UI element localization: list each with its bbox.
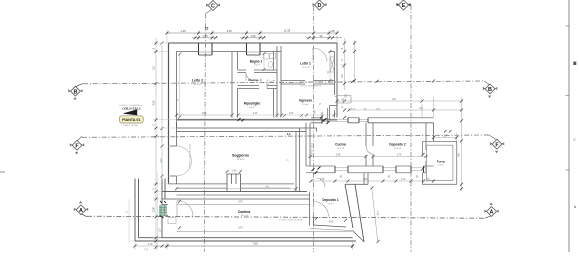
svg-text:B: B [488, 87, 492, 93]
title block: level flag triangle [124, 109, 138, 115]
bottom overall dimension line [167, 242, 353, 250]
svg-text:5,6 m²: 5,6 m² [254, 64, 260, 67]
Letto2 interior vertical dim [179, 54, 181, 117]
svg-text:4,6: 4,6 [458, 153, 461, 157]
north wing outer top wall [169, 42, 338, 44]
svg-text:3,45: 3,45 [226, 29, 232, 33]
svg-text:6,4 m²: 6,4 m² [303, 103, 309, 106]
right chain beside north wing [345, 38, 355, 90]
svg-text:SOPRA: LINEA GRONDA: SOPRA: LINEA GRONDA [279, 219, 303, 222]
title block: PIANTA 01 yellow label [120, 116, 144, 123]
svg-text:SOTTO: MARCIAPIEDE: SOTTO: MARCIAPIEDE [300, 85, 322, 88]
marker B right [483, 84, 497, 98]
svg-text:4,97: 4,97 [238, 200, 243, 203]
svg-text:38,7 m²: 38,7 m² [241, 214, 249, 217]
svg-text:4,80: 4,80 [202, 112, 207, 115]
east wing bottom wall [306, 166, 434, 173]
svg-text:1,45: 1,45 [232, 170, 237, 173]
svg-text:4,5: 4,5 [419, 107, 423, 110]
right vertical chain at forno [460, 119, 463, 190]
svg-text:A: A [490, 210, 494, 216]
marker B left [68, 86, 82, 100]
Forno door jamb marks [422, 153, 425, 170]
svg-text:4,85: 4,85 [329, 220, 334, 223]
svg-text:14,2 m²: 14,2 m² [337, 147, 344, 150]
building south wall [135, 238, 356, 241]
svg-text:4,10: 4,10 [160, 157, 163, 162]
svg-text:1,06: 1,06 [289, 113, 294, 115]
svg-text:E: E [402, 3, 406, 9]
west wall inner face [176, 52, 178, 184]
top dimension line [167, 30, 337, 43]
window bay Letto2 (top wall) [199, 43, 213, 55]
entry steps east of Ingresso [337, 96, 351, 104]
marker D [313, 0, 327, 10]
svg-text:6,0 m²: 6,0 m² [249, 106, 255, 109]
label Disimp 1 [248, 78, 270, 82]
marker F right [490, 139, 504, 153]
left dim extension x129 [128, 199, 130, 243]
Forno inner box [426, 145, 453, 180]
grid line D (vertical dash-dot) [313, 6, 315, 252]
Bagno1 south wall / corridor north wall [238, 70, 278, 73]
svg-text:SOPRA: LINEA: SOPRA: LINEA [311, 142, 314, 157]
label Letto 2 [192, 79, 203, 87]
marker F left [70, 140, 84, 154]
svg-text:1,50: 1,50 [205, 80, 207, 85]
svg-text:1,12: 1,12 [401, 179, 406, 181]
ticks at x=162 french door [161, 42, 164, 178]
marker C [206, 1, 220, 11]
Soggiorno south wall [162, 184, 307, 192]
label Soggiorno [232, 154, 249, 162]
svg-text:Cucina: Cucina [335, 143, 346, 147]
svg-text:16,1 m²: 16,1 m² [194, 83, 202, 86]
svg-text:A: A [79, 208, 83, 214]
Cantina inner south line [177, 231, 353, 233]
svg-text:3,98: 3,98 [336, 154, 341, 157]
left horizontal extension lines [131, 43, 177, 246]
wall between Letto1 and Ingresso [281, 81, 335, 85]
Deposito2 east wall [426, 123, 434, 173]
svg-text:Disimp. 1: Disimp. 1 [248, 78, 262, 82]
svg-text:SOPRA: LINEA GRONDA: SOPRA: LINEA GRONDA [189, 143, 192, 168]
cantina entry door arc [177, 201, 193, 217]
fireplace niche [227, 174, 241, 192]
vestibule opening walls [162, 205, 168, 216]
svg-text:22: 22 [205, 26, 209, 30]
left chain ticks [155, 42, 158, 249]
svg-text:4,1 m²: 4,1 m² [438, 164, 444, 167]
Deposito1 upper door arc [316, 178, 325, 187]
east wing lower dimension chain [311, 180, 434, 182]
svg-text:1,05: 1,05 [250, 34, 256, 38]
courtyard enclosure wall [135, 179, 165, 242]
marker A left [74, 201, 88, 215]
wall between Cucina and Deposito2 [366, 123, 373, 166]
svg-text:3,40: 3,40 [253, 113, 258, 115]
closet rect in Letto1 [330, 57, 335, 72]
svg-text:C: C [211, 4, 215, 10]
top secondary dimension line [192, 36, 342, 39]
svg-text:+130,2+132,2: +130,2+132,2 [121, 106, 140, 110]
fireplace dimension [226, 170, 243, 173]
marker A right [484, 202, 498, 216]
sheet border line far right [566, 0, 570, 252]
label Bagno 1 [250, 59, 263, 66]
svg-text:11,35: 11,35 [284, 29, 291, 33]
left chain labels (rotated) [153, 47, 163, 232]
svg-text:Soggiorno: Soggiorno [232, 154, 249, 158]
slanted outside dimension [372, 188, 378, 242]
svg-text:2,60: 2,60 [153, 206, 156, 211]
svg-text:1,78: 1,78 [320, 179, 325, 181]
svg-text:4,97: 4,97 [238, 227, 243, 230]
svg-text:B: B [73, 89, 77, 95]
entry step below A [168, 218, 176, 224]
Deposito1 door arc [314, 202, 329, 217]
svg-text:SOPRA: LINEA GRONDA: SOPRA: LINEA GRONDA [300, 81, 324, 84]
soggiorno north wall [177, 123, 317, 132]
svg-text:3,55: 3,55 [153, 100, 156, 105]
svg-text:Ripostiglio: Ripostiglio [244, 102, 261, 106]
interior wall between Letto2 and Bagno column [232, 52, 238, 118]
corridor south wall / Ripostiglio north wall [238, 86, 278, 89]
svg-text:1,05: 1,05 [202, 34, 208, 38]
entry door arc Letto1 [313, 48, 327, 62]
label Ripostiglio [244, 102, 261, 109]
svg-text:3,75: 3,75 [397, 154, 402, 157]
left margin tiny dash [0, 171, 5, 173]
svg-text:PIANO TERRA: PIANO TERRA [123, 124, 138, 127]
svg-text:12,4 m²: 12,4 m² [302, 66, 309, 69]
Soggiorno east wall [296, 128, 300, 192]
svg-text:7,4 m²: 7,4 m² [328, 202, 334, 205]
svg-text:6,5: 6,5 [392, 98, 396, 101]
Bagno1 door arc [246, 73, 254, 81]
grid line A (horizontal dash-dot) [82, 214, 492, 218]
label Forno [437, 159, 446, 166]
Deposito1 west wall [310, 192, 314, 226]
svg-text:12,6 m²: 12,6 m² [394, 147, 401, 150]
west outer wall [168, 43, 170, 184]
svg-text:Forno: Forno [437, 159, 446, 163]
svg-text:2,2: 2,2 [287, 132, 291, 136]
svg-text:Ingresso: Ingresso [299, 99, 312, 103]
grid line F (horizontal dash-dot) [78, 135, 497, 141]
east wall jog near Ingresso SE [330, 106, 338, 120]
east dimension lines (6,5 / 4,5) [337, 97, 462, 191]
grid line E (vertical dash-dot) [410, 5, 412, 252]
svg-text:Deposito 2: Deposito 2 [389, 143, 406, 147]
svg-text:1,45: 1,45 [180, 29, 186, 33]
Cantina north wall [162, 199, 310, 205]
Forno outer box [423, 141, 457, 184]
top dimension ticks [166, 32, 339, 35]
dark marks at Ripostiglio doorway [238, 118, 245, 122]
svg-text:SOPRA: LIN.: SOPRA: LIN. [263, 130, 276, 133]
forno top dimension [434, 133, 457, 141]
label Cantina [238, 210, 251, 217]
svg-text:Bagno 1: Bagno 1 [250, 59, 263, 63]
label Deposito 2 [389, 143, 406, 150]
svg-text:3,1: 3,1 [345, 94, 348, 98]
marker E [397, 0, 412, 10]
svg-text:2,55: 2,55 [363, 179, 368, 181]
svg-text:1,10: 1,10 [148, 243, 153, 246]
label Deposito 1 [322, 198, 339, 205]
Ingresso dim marks [283, 114, 303, 117]
svg-text:3,2: 3,2 [153, 66, 156, 70]
interior dimension Letto2 [177, 114, 233, 116]
grid line C (vertical dash-dot) [204, 10, 211, 252]
label Cucina [335, 143, 346, 150]
tiny annotation right of sheet border [573, 62, 576, 65]
interior dimension Deposito2 [373, 156, 426, 158]
svg-text:28,6 m²: 28,6 m² [237, 158, 245, 161]
Ripostiglio door arc [267, 81, 275, 89]
interior dimension Cucina [310, 156, 366, 158]
window bay Bagno1 (top wall) [247, 43, 261, 55]
svg-text:Cantina: Cantina [238, 210, 251, 214]
north wing south wall [177, 119, 338, 121]
north wing top wall inner face [177, 46, 335, 52]
Ripostiglio + Ingresso interior dim [238, 114, 334, 116]
Deposito1 north link walls [345, 173, 368, 185]
east wing top wall [311, 118, 434, 123]
svg-text:D: D [318, 3, 322, 9]
bottom-left small dims [135, 243, 167, 250]
svg-text:7,68: 7,68 [252, 242, 258, 246]
svg-text:3,7: 3,7 [159, 228, 162, 232]
grid line B (horizontal dash-dot) [76, 81, 490, 87]
label Ingresso [299, 99, 312, 107]
Soggiorno west french door arcs [170, 146, 192, 176]
east wall of north wing [336, 43, 338, 118]
dark junction cluster at Cucina SW corner [312, 167, 321, 175]
Cucina west wall [306, 123, 310, 166]
label Letto 1 [300, 62, 311, 70]
dark junction cluster at Cucina NW corner [320, 108, 330, 124]
Cantina top terrace line [177, 194, 310, 196]
left dimension chain [156, 38, 162, 250]
Deposito1 east slanted wall [345, 184, 364, 242]
Letto1 interior dim [329, 52, 331, 81]
Deposito1 south wall (slight slant) [310, 225, 353, 231]
stair hatch (teal) [159, 201, 167, 218]
Bagno1 fixtures [264, 54, 276, 68]
Cucina-Dep2 door arc [366, 146, 375, 155]
entry threshold on east wall [335, 97, 338, 109]
svg-text:Deposito 1: Deposito 1 [322, 198, 339, 202]
svg-text:3,2: 3,2 [341, 74, 344, 78]
interior dimension Soggiorno [177, 188, 297, 190]
svg-text:PIANTA 01: PIANTA 01 [122, 118, 140, 122]
wall between Bagno column and east rooms [274, 46, 282, 118]
Bagno1 interior dim [263, 54, 265, 70]
svg-text:Letto 1: Letto 1 [300, 62, 311, 66]
svg-text:Letto 2: Letto 2 [192, 79, 203, 83]
left dim extension x157 [156, 172, 158, 250]
top dimension labels [180, 29, 335, 38]
